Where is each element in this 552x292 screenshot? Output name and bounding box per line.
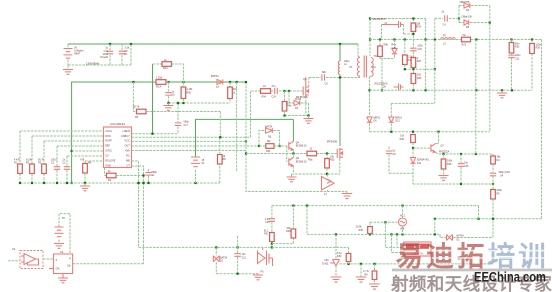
inductor L3 2u bbox=[441, 38, 456, 40]
diode D2 BAT54 clamp bbox=[215, 247, 217, 255]
svg-text:BC806-16: BC806-16 bbox=[296, 145, 307, 148]
wire output rail y=39.5 bbox=[370, 39, 542, 41]
pin wire 3 right to driver rail bbox=[132, 140, 247, 142]
transformer T1 secondary winding S1 bbox=[371, 58, 373, 77]
capacitor C8 5n snubber bbox=[388, 147, 390, 151]
node OBat-UB label and dot bbox=[458, 17, 460, 19]
svg-text:IRL2203N/S: IRL2203N/S bbox=[373, 18, 386, 21]
transformer T1 primary winding P1 bbox=[357, 58, 359, 77]
svg-text:R28: R28 bbox=[286, 230, 291, 233]
pin wire 5 right to sense bbox=[132, 150, 247, 152]
svg-text:R30: R30 bbox=[337, 255, 342, 258]
transistor Q8 BC806 lower bbox=[289, 158, 294, 167]
wire battery bus x=489.8 bbox=[489, 6, 491, 132]
svg-text:U2: U2 bbox=[60, 250, 64, 254]
capacitor C4 2n bbox=[435, 17, 443, 19]
resistor Ra 2k below IC bbox=[104, 168, 106, 176]
snubber resistor R4b bbox=[379, 40, 381, 47]
wire ground rail y=183 bbox=[20, 182, 220, 184]
wire gate drive from pin2 x=250.5 bbox=[251, 91, 261, 137]
svg-text:R20: R20 bbox=[515, 46, 520, 49]
capacitor C12 10n bbox=[237, 236, 239, 253]
capacitor D6 1n bbox=[167, 82, 169, 92]
wire R0 to RC pin vertical x=220.3 bbox=[219, 112, 221, 138]
resistor R0a 10 gate bbox=[307, 151, 317, 156]
resistor R0 28.7k bbox=[133, 82, 136, 112]
svg-text:BAT54: BAT54 bbox=[265, 125, 273, 128]
wire mid rail y=205.6 bbox=[272, 205, 479, 207]
resistor R23 5m bbox=[462, 37, 471, 42]
wire input bottom rail y=65 bbox=[68, 64, 131, 66]
wire gate node y=153.5 bbox=[246, 153, 307, 155]
capacitor C20 100n bbox=[412, 40, 414, 48]
svg-text:5m: 5m bbox=[463, 34, 466, 37]
resistor R26 110m bbox=[531, 40, 533, 44]
resistor R9 17.7k bbox=[374, 264, 376, 271]
svg-text:R4b: R4b bbox=[287, 105, 292, 108]
resistor R45 105 bbox=[411, 74, 416, 84]
wire Q4 collector to VCC bbox=[292, 119, 294, 141]
wire driver net x=246 bbox=[246, 82, 347, 192]
resistor R3 95.7k bbox=[43, 141, 45, 164]
wire base link and emitters bbox=[286, 146, 288, 162]
svg-text:ROFF: ROFF bbox=[105, 140, 112, 143]
wire source rail y=174 with ground bbox=[292, 173, 340, 175]
svg-text:IRL2203N/S: IRL2203N/S bbox=[375, 82, 388, 85]
op-amp U4 oscillator bbox=[20, 251, 43, 269]
diode D6 MRS1 bbox=[367, 117, 372, 122]
wire mid vertical x=236.6 bbox=[236, 82, 238, 172]
svg-text:28.7k: 28.7k bbox=[133, 105, 140, 108]
inductor L1 100u magnetizing bbox=[339, 44, 341, 61]
battery V3 input 3V bbox=[67, 44, 69, 49]
svg-text:C16: C16 bbox=[265, 221, 270, 224]
wire secondary bottom x=369.5 through D6 bbox=[369, 76, 371, 117]
resistor R36 100k bbox=[443, 154, 445, 159]
capacitor C1b input filter bbox=[121, 44, 123, 50]
wire Q7 collector bbox=[438, 132, 440, 144]
svg-text:COCL: COCL bbox=[105, 130, 112, 133]
wire lower mid rail y=234.4 bbox=[307, 233, 440, 235]
svg-text:C11: C11 bbox=[515, 58, 520, 61]
resistor R34 10k bbox=[412, 19, 414, 24]
svg-text:R47: R47 bbox=[417, 60, 422, 63]
capacitor S1 560p bypass bbox=[148, 169, 150, 172]
svg-text:5V: 5V bbox=[62, 217, 65, 220]
wire VCC net y=119.4 bbox=[196, 119, 294, 157]
ground below U2 bbox=[62, 274, 64, 278]
capacitor C17 560p bbox=[177, 103, 179, 122]
capacitor C1a 220u input bulk bbox=[109, 44, 111, 50]
ground on sync rail bbox=[501, 90, 503, 92]
svg-text:ROLOPE: ROLOPE bbox=[105, 160, 116, 163]
wire secondary top x=370 bbox=[369, 19, 371, 57]
ground stub on ref rail bbox=[360, 264, 362, 277]
svg-text:C15: C15 bbox=[464, 165, 469, 168]
resistor R27 51.1 bbox=[270, 233, 275, 242]
svg-text:R23: R23 bbox=[462, 43, 467, 46]
zener D4 gate clamp bbox=[289, 91, 294, 103]
battery V1 15V supply bbox=[191, 157, 200, 167]
resistor R6 240k divider bottom bbox=[491, 190, 496, 200]
diode D1 BAT54 output sense bbox=[440, 234, 446, 237]
capacitor C15 10n bbox=[460, 154, 462, 163]
wire bottom loop y=273.7 bbox=[216, 273, 258, 275]
svg-text:C20: C20 bbox=[417, 48, 422, 51]
pin wire 1 right LNE to C17 bbox=[132, 133, 179, 135]
wire Q1 source down bbox=[339, 159, 341, 174]
optocoupler U5 bbox=[258, 251, 273, 267]
svg-text:68n: 68n bbox=[322, 71, 327, 74]
svg-text:R33: R33 bbox=[330, 159, 335, 162]
wire battery rail VBAT y=44 bbox=[68, 43, 358, 45]
capacitor C9 68n bbox=[309, 77, 321, 79]
resistor R06 4.15k bbox=[182, 82, 184, 87]
svg-text:Y08: Y08 bbox=[80, 159, 85, 162]
wire Q3 source to C9 bbox=[308, 78, 310, 88]
diode D5 to battery bbox=[459, 22, 464, 24]
wire probe tap x=391.5 bbox=[391, 234, 393, 252]
wire secondary return rail y=131.7 bbox=[370, 131, 490, 133]
ground on rail y=183 bbox=[84, 183, 86, 186]
capacitor C14 47n bbox=[271, 90, 274, 92]
wire AC source leads bbox=[402, 206, 404, 218]
svg-text:REF: REF bbox=[105, 145, 110, 148]
svg-text:47n: 47n bbox=[272, 85, 277, 88]
transistor Q7 PN2222A bbox=[431, 144, 436, 153]
svg-text:R45: R45 bbox=[417, 77, 422, 80]
svg-text:LNE/N: LNE/N bbox=[123, 130, 130, 133]
wire U2 clk net y=263.7 bbox=[73, 263, 144, 265]
svg-text:SYNC: SYNC bbox=[105, 150, 112, 153]
transistor Q3 IRF9640 p-channel bbox=[303, 86, 309, 97]
svg-text:1.52k: 1.52k bbox=[156, 77, 163, 80]
svg-text:0.58V/988Ah: 0.58V/988Ah bbox=[86, 63, 100, 66]
wire TL431 ref rail y=263.9 bbox=[340, 263, 494, 265]
wire x=478.5 from mid rail bbox=[478, 206, 480, 219]
svg-text:R36: R36 bbox=[447, 163, 452, 166]
wire probe tap x=385.4 bbox=[384, 222, 386, 247]
svg-text:RON: RON bbox=[105, 135, 111, 138]
svg-text:D12: D12 bbox=[395, 120, 400, 123]
wire x=434.8 to lower rail bbox=[434, 219, 436, 235]
svg-text:R26: R26 bbox=[536, 47, 541, 50]
resistor R1 4.47k bbox=[19, 131, 21, 164]
wire sync net vertical x=71.6 and horizontal y=82 bbox=[72, 82, 246, 183]
pin wire 4 OUT to D8 R43 bbox=[132, 145, 260, 147]
resistor R28 50k bbox=[272, 238, 294, 244]
wire D12 branch y=103.4 bbox=[391, 102, 435, 104]
wire snubber to Q6 gate x=382 bbox=[381, 59, 383, 91]
svg-text:CM: CM bbox=[56, 267, 60, 270]
svg-text:R43: R43 bbox=[266, 150, 271, 153]
svg-text:VCswD: VCswD bbox=[100, 56, 108, 59]
transistor Q4 BC806 upper bbox=[289, 141, 294, 150]
ground at x=168 bbox=[167, 103, 169, 105]
wire x=459 vertical bbox=[458, 6, 460, 23]
svg-text:C7P: C7P bbox=[392, 47, 397, 50]
wire primary feed x=358 bbox=[357, 44, 359, 56]
zener D11 BZX84-9V1 bbox=[412, 148, 414, 157]
pin wire 8 right down to U2 clk net bbox=[132, 166, 144, 264]
svg-text:BAT54: BAT54 bbox=[211, 75, 219, 78]
pin wire 7 right down to common bbox=[132, 161, 139, 247]
battery V2 5V bbox=[59, 214, 70, 254]
svg-text:R12: R12 bbox=[163, 67, 168, 70]
ground below battery V3 bbox=[67, 65, 69, 70]
svg-text:BC806-16: BC806-16 bbox=[296, 161, 307, 164]
wire ref to AC source y=222.3 bbox=[370, 221, 399, 223]
resistor R46 20.9k bbox=[369, 222, 371, 226]
watermark white slit stripes bbox=[393, 250, 404, 252]
wire into U4 bbox=[8, 260, 20, 262]
resistor R30 5.1k bbox=[348, 247, 350, 253]
wire x=425.6 to sync rail bbox=[425, 40, 427, 91]
wire probe tap x=397 bbox=[396, 234, 398, 246]
capacitor C48 500p bbox=[490, 173, 496, 176]
svg-text:IRF540/B: IRF540/B bbox=[327, 140, 338, 143]
pin wires U1 left side to RC components bbox=[20, 130, 104, 132]
probe box VOUT/IN bbox=[404, 242, 431, 256]
capacitor C16 4.3n bbox=[271, 206, 273, 218]
resistor R4b 18k bbox=[284, 91, 286, 102]
svg-text:EEChina.com: EEChina.com bbox=[474, 270, 546, 285]
svg-text:R4b: R4b bbox=[384, 44, 389, 47]
resistor M6 bbox=[84, 161, 86, 164]
resistor R8 1k bbox=[219, 164, 221, 183]
svg-text:BAT54: BAT54 bbox=[457, 235, 465, 238]
svg-text:OBat-UB: OBat-UB bbox=[462, 16, 472, 19]
wire sync FET top rail y=18.5 bbox=[370, 18, 426, 20]
wire junction y=69.2 bbox=[405, 68, 435, 70]
resistor R2 61.9k bbox=[31, 136, 33, 164]
svg-text:R46: R46 bbox=[359, 229, 364, 232]
wire Q7 base bbox=[413, 147, 431, 149]
wire clamp rail y=115.5 with ground bbox=[285, 115, 309, 117]
wire sync rail y=90.3 bbox=[370, 89, 533, 91]
svg-text:UCC2813d: UCC2813d bbox=[110, 122, 125, 126]
svg-text:R06: R06 bbox=[187, 91, 192, 94]
ground below V2 bbox=[54, 244, 64, 249]
capacitor C2 1n bbox=[66, 156, 68, 166]
ground below R9 bbox=[369, 284, 380, 289]
svg-text:MB: MB bbox=[126, 160, 130, 163]
transformer T1 core bbox=[364, 56, 366, 78]
op-amp U1 UCC2813 PWM controller box bbox=[104, 127, 132, 168]
comparator box U2 bbox=[54, 254, 73, 274]
svg-text:易迪拓培训: 易迪拓培训 bbox=[396, 241, 550, 272]
svg-text:RC: RC bbox=[126, 155, 130, 158]
resistor R33 10k gate pulldown bbox=[326, 154, 328, 159]
wire top rail right corner x=425.6 bbox=[425, 19, 427, 40]
svg-text:CT: CT bbox=[126, 164, 130, 167]
resistor R04 10 bbox=[261, 89, 271, 94]
wire feedback rail y=184 bbox=[413, 183, 493, 185]
wire lower bus y=218.8 bbox=[435, 218, 542, 220]
diode D8 BAT54 speedup bbox=[259, 131, 266, 147]
ground at end of sense wire bbox=[346, 192, 348, 194]
svg-text:R27: R27 bbox=[264, 233, 269, 236]
capacitor C11 220u bbox=[508, 55, 514, 58]
source V08 AC perturbation bbox=[399, 218, 407, 226]
svg-text:VBAT: VBAT bbox=[74, 53, 81, 56]
resistor R35 10k opto pullup bbox=[411, 135, 416, 143]
watermark underline bar bbox=[392, 269, 552, 272]
svg-text:C12: C12 bbox=[242, 256, 247, 259]
shunt regulator TL431 U33 bbox=[335, 234, 337, 259]
svg-text:GND: GND bbox=[105, 164, 111, 167]
svg-text:VCC: VCC bbox=[125, 140, 130, 143]
resistor RCA 1.52k bbox=[156, 80, 166, 85]
node VBAT junction dots bbox=[109, 43, 111, 45]
wire Q7 emitter rail y=154 bbox=[436, 153, 494, 155]
ground on bottom loop bbox=[257, 273, 259, 276]
resistor R43 base bbox=[258, 145, 260, 147]
svg-text:OUT: OUT bbox=[125, 145, 131, 148]
svg-text:D11: D11 bbox=[417, 162, 422, 165]
current sense CT1 triangle bbox=[322, 177, 335, 191]
capacitor C3 100u bbox=[56, 146, 58, 166]
svg-text:R35: R35 bbox=[400, 138, 405, 141]
pin wire 2 right to VCC R8 node bbox=[132, 136, 251, 138]
svg-text:C14: C14 bbox=[272, 96, 277, 99]
diode C7 BAT54 bbox=[217, 79, 223, 84]
resistor R22 1k bbox=[229, 82, 231, 87]
resistor R4 5.2k bbox=[404, 40, 406, 56]
wire primary bottom to switch node bbox=[340, 77, 360, 79]
diode D4 to battery bbox=[459, 5, 464, 7]
svg-text:R34: R34 bbox=[416, 26, 421, 29]
resistor R4c 35k divider top bbox=[492, 154, 494, 156]
junction dots on y=82 net bbox=[132, 81, 134, 83]
wire sense vertical x=475.8 bbox=[475, 40, 477, 155]
snubber diode D7 bbox=[394, 40, 396, 49]
wire Q5 gate stub bbox=[382, 24, 394, 26]
wire Q8 collector down bbox=[292, 166, 294, 172]
svg-text:R04: R04 bbox=[262, 96, 267, 99]
wire long vertical x=434.8 bbox=[434, 18, 436, 103]
diode D12 MRS1 bbox=[390, 103, 392, 117]
svg-text:R0a: R0a bbox=[308, 158, 313, 161]
svg-text:C17: C17 bbox=[184, 124, 189, 127]
wire x=307 mid to lower rail bbox=[306, 206, 308, 235]
ground below R36 bbox=[439, 176, 449, 181]
svg-text:RCA: RCA bbox=[156, 85, 162, 88]
svg-text:TL431: TL431 bbox=[322, 262, 329, 265]
wire U2 stub left bbox=[49, 268, 54, 270]
svg-text:UNBUY: UNBUY bbox=[121, 135, 130, 138]
wire local ground rail y=103 bbox=[168, 102, 230, 104]
resistor R12 1k top bbox=[152, 64, 154, 134]
svg-text:AVA: AVA bbox=[125, 150, 130, 153]
wire right edge drop x=541.5 bbox=[541, 40, 543, 219]
wire snubber bottom y=58.5 bbox=[380, 58, 395, 60]
wire U4 to U2 bbox=[43, 258, 54, 260]
resistor R20 65m bbox=[511, 40, 513, 43]
wire common rail y=247.4 bbox=[139, 246, 349, 248]
resistor R47 2 bbox=[411, 58, 416, 68]
